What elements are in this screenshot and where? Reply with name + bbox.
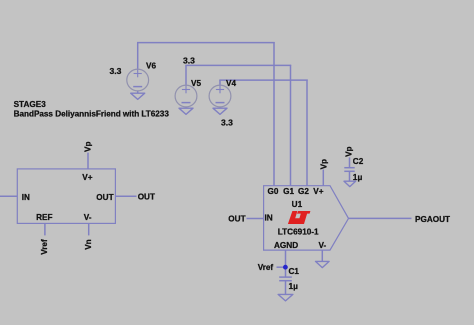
svg-text:G2: G2 (298, 187, 309, 196)
svg-text:LTC6910-1: LTC6910-1 (278, 228, 319, 237)
svg-text:Vref: Vref (258, 263, 274, 272)
svg-text:V-: V- (319, 241, 327, 250)
wire (block OUT pin) (115, 195, 136, 197)
ground (C2) (344, 181, 356, 186)
subcircuit block BandPass DeliyannisFriend (pins IN, V+, OUT, REF, V-) (17, 169, 115, 224)
voltage source V5 (175, 79, 201, 107)
wire (AGND pin down to C1) (285, 250, 287, 277)
wire (Vp to C2) (349, 157, 351, 167)
svg-text:3.3: 3.3 (183, 55, 195, 65)
wire (block REF pin stub) (44, 223, 46, 235)
svg-text:3.3: 3.3 (221, 117, 233, 127)
svg-text:OUT: OUT (138, 193, 155, 202)
wire (273, 42, 275, 186)
wire (U1 V+ pin stub) (322, 170, 324, 186)
voltage source V6 (127, 62, 157, 91)
svg-text:V5: V5 (191, 79, 201, 88)
junction dot (283, 265, 288, 270)
svg-text:Vp: Vp (344, 146, 353, 156)
voltage source V4 (209, 79, 236, 107)
svg-text:V-: V- (84, 213, 92, 222)
svg-text:OUT: OUT (96, 193, 113, 202)
ground (V5) (179, 108, 193, 114)
wire (306, 80, 308, 186)
svg-text:Vref: Vref (40, 239, 49, 255)
svg-text:V+: V+ (82, 173, 92, 182)
svg-text:REF: REF (36, 213, 52, 222)
wire (U1 output to PGAOUT) (349, 217, 412, 219)
ground (C1) (278, 294, 293, 301)
svg-text:AGND: AGND (274, 241, 298, 250)
svg-text:3.3: 3.3 (110, 66, 122, 76)
wire (137, 43, 139, 69)
wire (input to bandpass block) (0, 195, 17, 197)
svg-text:1µ: 1µ (353, 172, 363, 182)
svg-text:V+: V+ (313, 187, 323, 196)
svg-text:U1: U1 (292, 200, 303, 209)
svg-text:Vn: Vn (84, 239, 93, 249)
wire (219, 80, 221, 85)
ground (U1 V-) (316, 261, 330, 267)
svg-text:BandPass DeliyannisFriend with: BandPass DeliyannisFriend with LT6233 (14, 109, 170, 118)
svg-text:G0: G0 (268, 187, 279, 196)
wire (137, 91, 139, 93)
svg-text:PGAOUT: PGAOUT (415, 215, 450, 224)
svg-text:Vp: Vp (320, 159, 329, 169)
svg-text:C2: C2 (353, 157, 364, 166)
svg-text:1µ: 1µ (289, 281, 299, 291)
svg-text:G1: G1 (283, 187, 294, 196)
LT logo (red) (288, 211, 311, 224)
svg-text:V4: V4 (226, 79, 236, 88)
svg-text:IN: IN (22, 193, 30, 202)
ground (V4) (213, 108, 227, 114)
svg-text:STAGE3: STAGE3 (14, 100, 47, 109)
wire (C1 to ground) (285, 281, 287, 295)
wire (to U1 IN pin) (247, 218, 264, 220)
ground (V6) (131, 93, 145, 99)
capacitor C2 (344, 157, 363, 171)
wire (block V- pin stub) (88, 223, 90, 235)
wire (290, 65, 292, 186)
capacitor C1 (279, 267, 299, 281)
wire (185, 65, 187, 84)
wire (block V+ pin stub) (87, 153, 89, 169)
wire (185, 64, 291, 66)
wire (219, 79, 307, 81)
svg-text:C1: C1 (289, 267, 300, 276)
wire (C2 to ground) (349, 171, 351, 181)
svg-text:Vp: Vp (84, 142, 93, 152)
wire (U1 V- pin to ground) (321, 250, 323, 261)
svg-text:IN: IN (265, 214, 273, 223)
wire (219, 106, 221, 109)
wire (137, 42, 275, 44)
svg-text:OUT: OUT (228, 214, 245, 223)
op-amp / PGA U1 LTC6910-1 symbol outline (264, 186, 349, 250)
wire (185, 106, 187, 109)
svg-text:V6: V6 (146, 62, 156, 71)
wire (Vref to junction) (277, 266, 286, 268)
